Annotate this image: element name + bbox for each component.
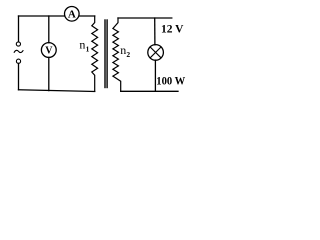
transformer core line left bbox=[104, 20, 106, 88]
wire voltmeter branch lower bbox=[48, 57, 50, 90]
svg-text:100 W: 100 W bbox=[156, 73, 185, 87]
svg-text:12 V: 12 V bbox=[161, 22, 184, 36]
wire top of primary loop (left segment) bbox=[19, 15, 65, 17]
transformer primary coil n1 bbox=[92, 16, 98, 91]
lamp L1 cross stroke 1 bbox=[150, 47, 161, 58]
ammeter A1 circle bbox=[65, 7, 80, 22]
svg-text:A: A bbox=[68, 9, 76, 21]
wire voltmeter branch upper bbox=[48, 16, 50, 43]
svg-text:n: n bbox=[79, 38, 85, 52]
svg-text:n: n bbox=[120, 43, 126, 57]
wire bottom of secondary loop bbox=[121, 90, 178, 92]
AC source lower terminal bbox=[16, 59, 20, 63]
transformer secondary coil n2 bbox=[113, 18, 121, 91]
svg-text:2: 2 bbox=[126, 50, 130, 59]
lamp L1 cross stroke 2 bbox=[150, 47, 161, 58]
wire left side lower (source to bottom) bbox=[18, 64, 20, 90]
svg-text:V: V bbox=[45, 45, 53, 56]
voltmeter V1 circle bbox=[41, 43, 56, 58]
AC source upper terminal bbox=[16, 42, 20, 46]
svg-text:1: 1 bbox=[86, 45, 90, 54]
wire left side upper (corner to source terminal) bbox=[18, 16, 20, 42]
wire top of secondary loop bbox=[118, 17, 172, 19]
wire lamp branch upper bbox=[154, 18, 156, 45]
AC source tilde bbox=[14, 50, 23, 52]
lamp L1 circle bbox=[148, 45, 164, 61]
wire lamp branch lower bbox=[154, 60, 156, 91]
wire top of primary loop (ammeter to corner) bbox=[79, 15, 95, 17]
transformer core line right bbox=[106, 20, 108, 88]
wire bottom of primary loop bbox=[19, 90, 95, 92]
